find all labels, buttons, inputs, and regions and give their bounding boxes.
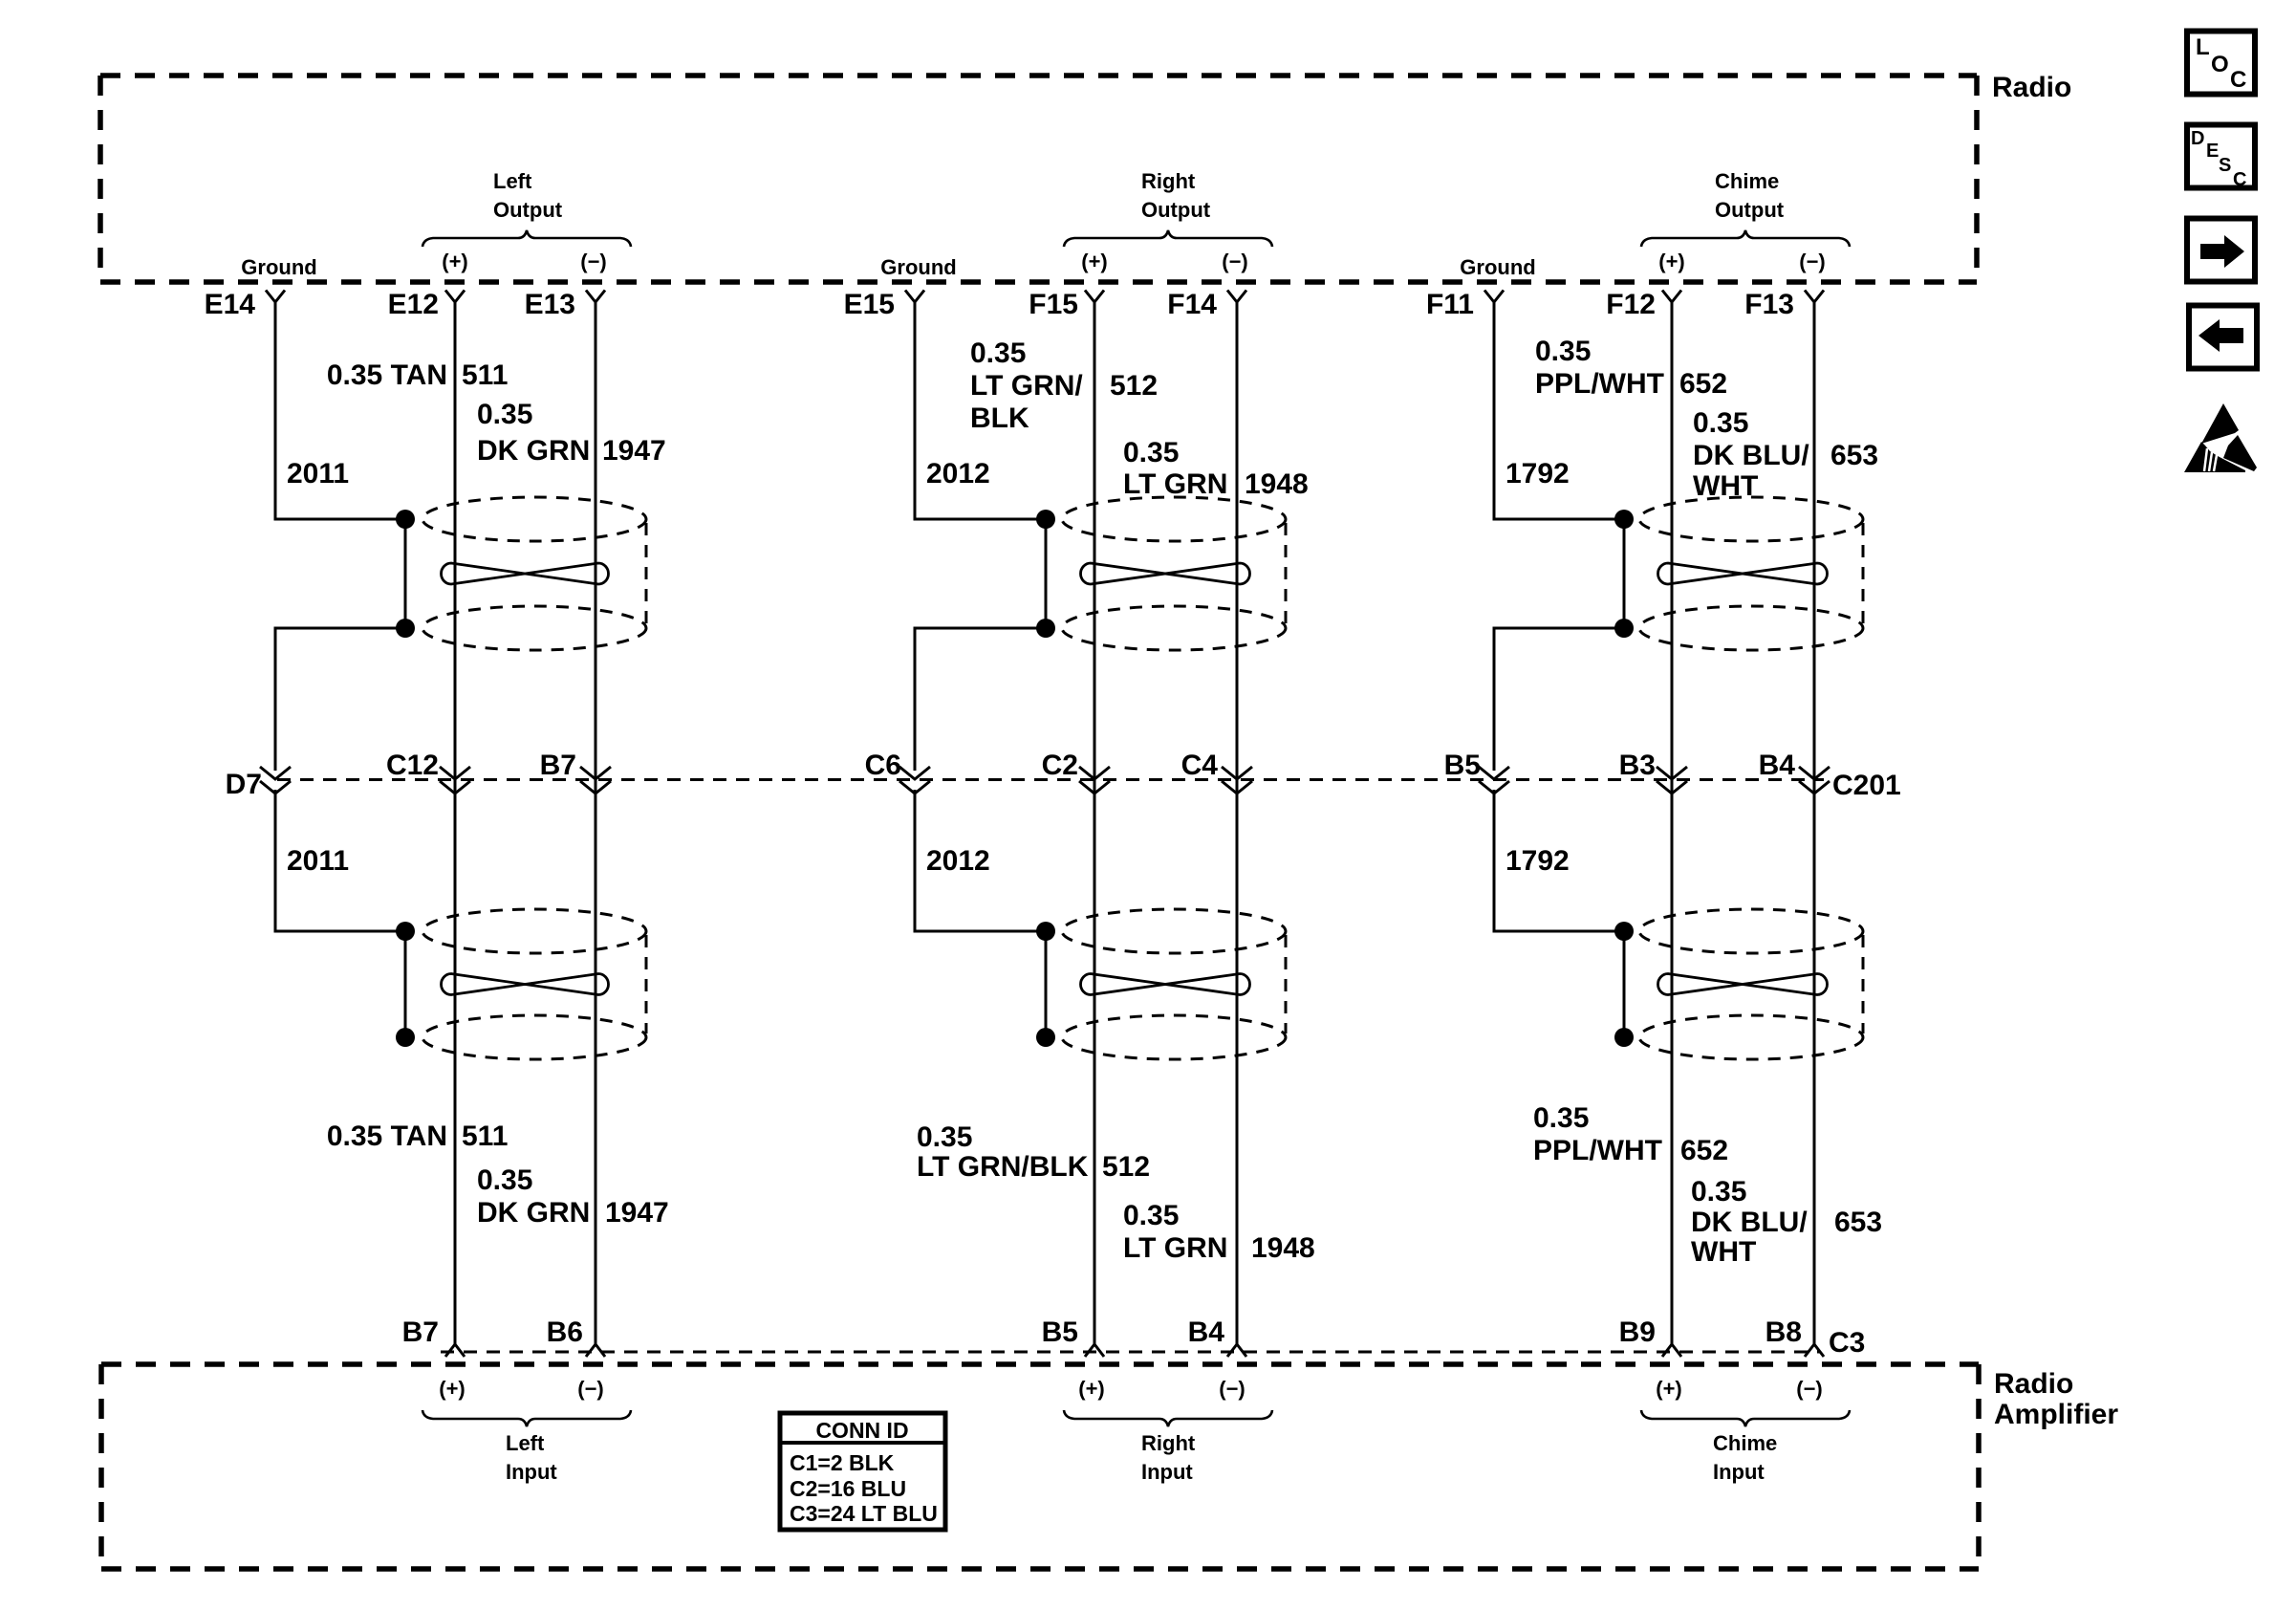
cable shield (upper, chime)	[1639, 497, 1863, 650]
svg-text:E13: E13	[525, 289, 575, 320]
amplifier pin B7 (+)	[402, 1316, 465, 1357]
cable shield (lower, right)	[1062, 909, 1286, 1059]
wire label 0.35 LT GRN/BLK (upper +)	[970, 337, 1083, 434]
amplifier pin B4 (−)	[1188, 1316, 1246, 1357]
Radio component dashed box	[100, 76, 1977, 282]
svg-text:512: 512	[1102, 1151, 1150, 1183]
svg-text:WHT: WHT	[1691, 1236, 1756, 1268]
twisted pair crossing (lower, right)	[1081, 974, 1250, 995]
svg-text:C201: C201	[1832, 770, 1901, 801]
svg-text:O: O	[2211, 52, 2229, 77]
svg-text:D7: D7	[226, 769, 262, 800]
svg-text:DK BLU/: DK BLU/	[1691, 1207, 1808, 1238]
svg-text:Output: Output	[1715, 198, 1785, 222]
svg-text:(−): (−)	[1222, 250, 1248, 273]
junction dot (top shield, lower)	[1036, 619, 1055, 638]
wire label 0.35 PPL/WHT (upper +)	[1535, 336, 1664, 400]
svg-text:LT GRN/: LT GRN/	[970, 370, 1083, 402]
junction dot (lower shield, lower)	[1614, 1028, 1634, 1047]
svg-text:LT GRN: LT GRN	[1123, 1232, 1227, 1264]
radio pin F15 (+)	[1029, 289, 1104, 320]
svg-text:BLK: BLK	[970, 402, 1029, 434]
svg-text:(+): (+)	[1658, 250, 1685, 273]
Left Input label	[506, 1431, 557, 1484]
amplifier pin B6 (−)	[547, 1316, 605, 1357]
svg-text:(−): (−)	[1219, 1377, 1245, 1401]
svg-text:652: 652	[1679, 368, 1727, 400]
svg-text:0.35: 0.35	[1691, 1176, 1746, 1207]
radio pin E14 (ground)	[205, 289, 285, 320]
svg-text:B4: B4	[1759, 750, 1796, 781]
svg-text:B6: B6	[547, 1316, 583, 1348]
svg-text:Input: Input	[506, 1460, 557, 1484]
connector pin D7 at C201 (ground)	[226, 767, 291, 800]
svg-text:C4: C4	[1181, 750, 1219, 781]
amplifier pin B8 (−)	[1765, 1316, 1824, 1357]
radio pin E15 (ground)	[844, 289, 924, 320]
amplifier pin B9 (+)	[1619, 1316, 1681, 1357]
wire: F15 (+) down to amplifier	[1094, 302, 1096, 1344]
svg-text:B7: B7	[540, 750, 576, 781]
svg-text:E: E	[2206, 141, 2219, 162]
connector pin B7 at C201 (−)	[540, 750, 611, 794]
svg-text:L: L	[2196, 34, 2210, 60]
wire: shield to connector C6	[915, 628, 1037, 771]
svg-text:Chime: Chime	[1713, 1431, 1777, 1455]
svg-text:Left: Left	[493, 169, 532, 193]
svg-text:Radio: Radio	[1994, 1368, 2073, 1400]
svg-text:653: 653	[1830, 440, 1878, 471]
wire: C6 down to lower shield tap	[915, 790, 1037, 931]
svg-text:0.35 TAN: 0.35 TAN	[327, 359, 447, 391]
svg-text:652: 652	[1680, 1135, 1728, 1166]
radio pin F11 (ground)	[1426, 289, 1504, 320]
svg-text:F13: F13	[1744, 289, 1794, 320]
Chime Output label	[1715, 169, 1785, 222]
Radio Amplifier label	[1994, 1368, 2118, 1430]
wire: ground F11 down to shield tap	[1494, 302, 1615, 519]
twisted pair crossing (upper, left)	[442, 563, 609, 584]
svg-text:0.35: 0.35	[970, 337, 1026, 369]
svg-text:C3=24 LT BLU: C3=24 LT BLU	[790, 1501, 938, 1526]
svg-text:(+): (+)	[442, 250, 468, 273]
shield drain link (upper shield)	[404, 519, 407, 628]
wire label 0.35 LT GRN (lower −)	[1123, 1200, 1227, 1264]
wire label 0.35 LT GRN (upper −)	[1123, 437, 1227, 500]
svg-text:1792: 1792	[1505, 845, 1570, 877]
svg-text:2011: 2011	[287, 845, 349, 877]
radio pin E13 (−)	[525, 289, 605, 320]
svg-text:Chime: Chime	[1715, 169, 1779, 193]
svg-text:B5: B5	[1042, 1316, 1078, 1348]
svg-text:0.35: 0.35	[1533, 1102, 1589, 1134]
svg-text:0.35: 0.35	[1123, 437, 1179, 468]
Right Input label	[1141, 1431, 1196, 1484]
svg-text:C1=2 BLK: C1=2 BLK	[790, 1450, 895, 1475]
Left Output label	[493, 169, 563, 222]
cable shield (upper, right)	[1062, 497, 1286, 650]
wire: ground E14 down to shield tap	[275, 302, 397, 519]
svg-text:CONN ID: CONN ID	[815, 1418, 908, 1443]
svg-text:WHT: WHT	[1693, 470, 1758, 502]
svg-text:(−): (−)	[580, 250, 607, 273]
cable shield (lower, left)	[422, 909, 646, 1059]
svg-text:DK GRN: DK GRN	[477, 435, 590, 467]
Left Input brace	[422, 1410, 631, 1426]
svg-text:F14: F14	[1167, 289, 1217, 320]
svg-text:2011: 2011	[287, 458, 349, 490]
Right Input brace	[1064, 1410, 1272, 1426]
LOC icon button	[2187, 32, 2255, 95]
svg-text:E14: E14	[205, 289, 256, 320]
junction dot (lower shield, upper)	[1036, 922, 1055, 941]
svg-text:Amplifier: Amplifier	[1994, 1399, 2118, 1430]
junction dot (top shield, lower)	[396, 619, 415, 638]
svg-text:511: 511	[462, 359, 508, 391]
connector pin B3 at C201 (+)	[1619, 750, 1687, 794]
wire label 0.35 DK BLU/WHT (lower −)	[1691, 1176, 1808, 1268]
svg-text:512: 512	[1110, 370, 1158, 402]
connector pin C2 at C201 (+)	[1042, 750, 1110, 794]
svg-text:Right: Right	[1141, 1431, 1196, 1455]
connector C201 dashed line	[277, 778, 1824, 781]
shield drain link (lower shield)	[1045, 931, 1048, 1037]
svg-text:B7: B7	[402, 1316, 439, 1348]
svg-text:(+): (+)	[1656, 1377, 1682, 1401]
shield drain link (lower shield)	[1623, 931, 1626, 1037]
connector pin C4 at C201 (−)	[1181, 750, 1252, 794]
connector C3 dashed line (amplifier header)	[441, 1351, 1820, 1354]
junction dot (lower shield, upper)	[396, 922, 415, 941]
svg-text:C2: C2	[1042, 750, 1078, 781]
svg-text:653: 653	[1834, 1207, 1882, 1238]
svg-text:2012: 2012	[926, 845, 990, 877]
Right Output label	[1141, 169, 1211, 222]
wire label 0.35 DK GRN (lower −)	[477, 1164, 590, 1229]
Chime Input brace	[1641, 1410, 1850, 1426]
svg-text:1948: 1948	[1251, 1232, 1315, 1264]
junction dot (top shield, upper)	[396, 510, 415, 529]
wire label 0.35 DK GRN (upper −)	[477, 399, 590, 467]
wire: B5 down to lower shield tap	[1494, 790, 1615, 931]
wire: shield to connector D7	[275, 628, 397, 771]
junction dot (lower shield, upper)	[1614, 922, 1634, 941]
svg-text:(+): (+)	[1078, 1377, 1105, 1401]
svg-text:Output: Output	[493, 198, 563, 222]
wire: E12 (+) down to amplifier	[454, 302, 457, 1344]
Radio Amplifier dashed box	[101, 1364, 1979, 1569]
svg-text:C: C	[2230, 67, 2246, 93]
svg-text:0.35: 0.35	[477, 399, 532, 430]
forward arrow icon button	[2187, 219, 2255, 282]
svg-text:511: 511	[462, 1120, 508, 1152]
svg-text:F12: F12	[1606, 289, 1656, 320]
svg-text:0.35: 0.35	[1535, 336, 1591, 367]
junction dot (top shield, upper)	[1614, 510, 1634, 529]
wire: F13 (−) down to amplifier	[1813, 302, 1816, 1344]
svg-text:PPL/WHT: PPL/WHT	[1535, 368, 1664, 400]
wire label 0.35 LT GRN/BLK (lower +)	[917, 1121, 1089, 1183]
CONN ID table	[780, 1413, 945, 1530]
svg-text:B4: B4	[1188, 1316, 1225, 1348]
svg-text:(−): (−)	[1799, 250, 1826, 273]
svg-text:PPL/WHT: PPL/WHT	[1533, 1135, 1662, 1166]
svg-text:0.35: 0.35	[1693, 407, 1748, 439]
svg-text:Output: Output	[1141, 198, 1211, 222]
svg-text:0.35: 0.35	[917, 1121, 972, 1153]
Right Output brace	[1064, 230, 1272, 247]
svg-text:E12: E12	[388, 289, 439, 320]
svg-text:Input: Input	[1141, 1460, 1193, 1484]
radio pin F12 (+)	[1606, 289, 1681, 320]
svg-text:0.35: 0.35	[1123, 1200, 1179, 1231]
svg-text:0.35 TAN: 0.35 TAN	[327, 1120, 447, 1152]
svg-text:Right: Right	[1141, 169, 1196, 193]
twisted pair crossing (lower, left)	[442, 974, 609, 995]
svg-text:C3: C3	[1829, 1327, 1865, 1359]
shield drain link (upper shield)	[1623, 519, 1626, 628]
connector pin C6 at C201 (ground)	[865, 750, 930, 794]
wire: E13 (−) down to amplifier	[595, 302, 597, 1344]
svg-text:Ground: Ground	[880, 255, 956, 279]
wire: ground E15 down to shield tap	[915, 302, 1037, 519]
cable shield (upper, left)	[422, 497, 646, 650]
svg-text:C6: C6	[865, 750, 901, 781]
svg-text:B3: B3	[1619, 750, 1656, 781]
svg-text:D: D	[2191, 128, 2204, 149]
svg-text:Ground: Ground	[1460, 255, 1535, 279]
svg-text:LT GRN/BLK: LT GRN/BLK	[917, 1151, 1089, 1183]
Left Output brace	[422, 230, 631, 247]
shield drain link (upper shield)	[1045, 519, 1048, 628]
junction dot (lower shield, lower)	[396, 1028, 415, 1047]
svg-text:1947: 1947	[602, 435, 666, 467]
back arrow icon button	[2189, 306, 2257, 369]
ESD sensitive device symbol	[2184, 403, 2257, 472]
wire: shield to connector B5	[1494, 628, 1615, 771]
svg-text:1792: 1792	[1505, 458, 1570, 490]
wire: F14 (−) down to amplifier	[1236, 302, 1239, 1344]
radio pin F13 (−)	[1744, 289, 1824, 320]
wire label 0.35 PPL/WHT (lower +)	[1533, 1102, 1662, 1166]
svg-text:(+): (+)	[1081, 250, 1108, 273]
svg-text:DK BLU/: DK BLU/	[1693, 440, 1809, 471]
svg-text:C2=16 BLU: C2=16 BLU	[790, 1476, 906, 1501]
svg-text:C: C	[2233, 169, 2246, 190]
svg-text:1948: 1948	[1245, 468, 1309, 500]
svg-text:C12: C12	[386, 750, 439, 781]
svg-text:B5: B5	[1444, 750, 1481, 781]
svg-text:Ground: Ground	[241, 255, 316, 279]
svg-text:Left: Left	[506, 1431, 545, 1455]
junction dot (top shield, upper)	[1036, 510, 1055, 529]
DESC icon button	[2187, 125, 2255, 191]
svg-text:2012: 2012	[926, 458, 990, 490]
wire: D7 down to lower shield tap	[275, 790, 397, 931]
connector pin B5 at C201 (ground)	[1444, 750, 1509, 794]
svg-text:(−): (−)	[577, 1377, 604, 1401]
amplifier pin B5 (+)	[1042, 1316, 1104, 1357]
svg-text:S: S	[2219, 155, 2231, 176]
junction dot (top shield, lower)	[1614, 619, 1634, 638]
twisted pair crossing (upper, chime)	[1658, 563, 1828, 584]
Chime Input label	[1713, 1431, 1777, 1484]
svg-text:1947: 1947	[605, 1197, 669, 1229]
shield drain link (lower shield)	[404, 931, 407, 1037]
radio pin F14 (−)	[1167, 289, 1246, 320]
svg-text:F11: F11	[1426, 289, 1474, 320]
svg-text:F15: F15	[1029, 289, 1078, 320]
radio pin E12 (+)	[388, 289, 465, 320]
svg-text:E15: E15	[844, 289, 895, 320]
wire label 0.35 DK BLU/WHT (upper −)	[1693, 407, 1809, 502]
svg-text:Radio: Radio	[1992, 72, 2071, 103]
svg-text:(+): (+)	[439, 1377, 466, 1401]
svg-text:0.35: 0.35	[477, 1164, 532, 1196]
twisted pair crossing (lower, chime)	[1658, 974, 1828, 995]
Chime Output brace	[1641, 230, 1850, 247]
twisted pair crossing (upper, right)	[1081, 563, 1250, 584]
connector pin B4 at C201 (−)	[1759, 750, 1830, 794]
svg-text:Input: Input	[1713, 1460, 1765, 1484]
svg-text:DK GRN: DK GRN	[477, 1197, 590, 1229]
junction dot (lower shield, lower)	[1036, 1028, 1055, 1047]
svg-text:LT GRN: LT GRN	[1123, 468, 1227, 500]
svg-text:B8: B8	[1765, 1316, 1802, 1348]
svg-text:(−): (−)	[1796, 1377, 1823, 1401]
cable shield (lower, chime)	[1639, 909, 1863, 1059]
wire: F12 (+) down to amplifier	[1671, 302, 1674, 1344]
connector pin C12 at C201 (+)	[386, 750, 470, 794]
svg-text:B9: B9	[1619, 1316, 1656, 1348]
